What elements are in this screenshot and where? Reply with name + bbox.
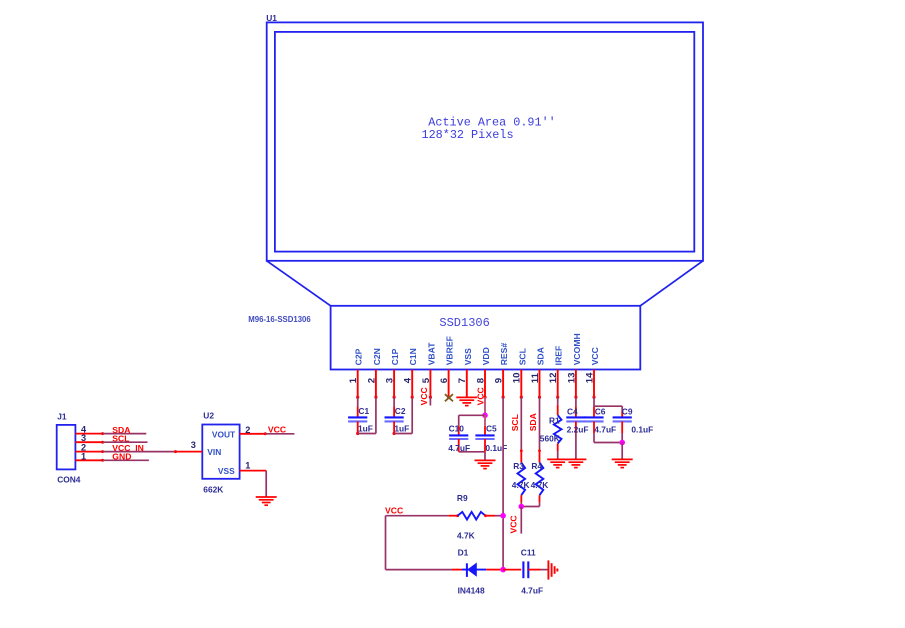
svg-text:8: 8 [475,377,486,383]
svg-text:D1: D1 [458,547,469,557]
svg-text:IREF: IREF [554,346,564,366]
svg-text:C9: C9 [622,406,633,416]
wire R9 to RES# junction [495,515,503,517]
svg-text:0.1uF: 0.1uF [485,443,507,453]
svg-text:1uF: 1uF [394,424,409,434]
svg-text:1uF: 1uF [358,424,373,434]
pin 3 (C1P) lead [385,348,401,398]
wire net VCC [265,433,294,435]
svg-text:M96-16-SSD1306: M96-16-SSD1306 [248,315,311,324]
svg-text:RES#: RES# [499,343,509,366]
wire junction to C10 [459,414,485,416]
pin 5 (VBAT) lead [421,342,437,399]
svg-text:7: 7 [457,378,468,383]
junction D1/C11/RES# [500,567,506,573]
wire C11 to ground [541,569,549,571]
wire VSS to ground [265,471,267,497]
wire display right bezel slant [640,261,703,306]
svg-text:R1: R1 [549,415,560,425]
pin 1 (C2P) lead [348,348,364,398]
svg-text:C11: C11 [521,547,536,557]
svg-text:4.7K: 4.7K [512,480,530,490]
svg-text:VSS: VSS [218,466,235,476]
capacitor C9 [613,406,654,434]
ground (VCC caps) [612,459,633,467]
resistor R9 [449,493,495,541]
capacitor C2 [385,406,410,435]
ground (C11, rotated) [548,560,557,579]
svg-text:1: 1 [348,377,359,383]
resistor R4 [531,449,549,502]
svg-text:SCL: SCL [517,348,527,365]
svg-text:0.1uF: 0.1uF [631,424,653,434]
wire junction to ground [621,443,623,460]
pin J1.4 lead [75,425,104,436]
wire C6 bottom to junction [593,433,595,443]
pin 9 (RES#) lead [494,343,510,399]
svg-text:4.7K: 4.7K [457,531,475,541]
svg-text:4.7K: 4.7K [531,480,549,490]
svg-text:2: 2 [366,378,377,383]
wire SCL vertical [520,397,522,451]
svg-text:VSS: VSS [463,348,473,365]
svg-text:C5: C5 [486,423,497,433]
wire pullup VCC stub [520,507,522,534]
svg-text:C2: C2 [395,406,406,416]
svg-text:SCL: SCL [510,414,520,431]
capacitor C6 [584,406,616,434]
pin J1.3 lead [75,433,104,444]
svg-text:SDA: SDA [528,413,538,431]
svg-text:U2: U2 [203,411,214,421]
capacitor C11 [503,547,543,595]
pin U2.3 (VIN) lead [176,440,203,451]
svg-text:C6: C6 [595,406,606,416]
svg-text:9: 9 [494,378,505,383]
wire net SDA [103,433,147,435]
svg-text:4.7uF: 4.7uF [594,424,616,434]
svg-text:VDD: VDD [481,347,491,365]
wire RES# vertical [502,397,504,516]
svg-text:VCC: VCC [509,515,519,533]
capacitor C4 [566,406,588,434]
svg-text:J1: J1 [57,412,67,422]
pin 13 (VCOMH) lead [566,333,582,399]
svg-text:C1N: C1N [408,348,418,365]
wire pin13 to C4 [575,397,577,407]
wire pin5 stub [429,397,431,405]
svg-text:10: 10 [512,373,523,384]
junction pullup node [519,504,525,510]
svg-text:C4: C4 [567,406,578,416]
wire R3/R4 bottoms joined [520,503,522,507]
ground (VCOMH) [565,459,586,467]
wire R1 to ground [557,451,559,459]
svg-text:VCOMH: VCOMH [572,333,582,365]
wire VCC down to D1 [385,516,387,570]
svg-text:12: 12 [548,373,559,384]
ground (U2 VSS) [256,497,277,505]
wire pin8 to junction [484,397,486,415]
svg-text:1: 1 [81,451,86,461]
svg-text:2: 2 [245,425,250,435]
ground (VDD decoupling) [475,460,496,468]
wire net GND [103,459,149,461]
svg-text:VCC: VCC [590,347,600,365]
junction R9/RES# [500,513,506,519]
connector J1 [57,412,81,485]
wire C2 bottom to pin4 [394,433,412,435]
wire display left bezel slant [267,261,331,306]
pin J1.1 lead [75,451,104,462]
svg-text:3: 3 [385,378,396,383]
svg-text:VCC: VCC [419,387,429,405]
diode D1 [452,547,501,595]
pin J1.2 lead [75,443,104,454]
svg-text:6: 6 [439,378,450,383]
svg-text:2.2uF: 2.2uF [567,424,589,434]
wire pin14 to C6 and link to C9 [593,397,595,407]
svg-text:SSD1306: SSD1306 [439,316,489,330]
svg-text:VBREF: VBREF [445,336,455,365]
svg-text:C2P: C2P [354,348,364,365]
svg-text:C10: C10 [449,423,465,433]
SSD1306 driver block [248,306,640,370]
svg-text:VOUT: VOUT [212,430,236,440]
wire pin1 to C1 [357,397,359,407]
regulator U2 [202,411,239,495]
pin 10 (SCL) lead [512,348,528,399]
svg-text:128*32 Pixels: 128*32 Pixels [422,128,514,142]
wire C10 bottom to C5 bottom [459,451,485,453]
svg-text:4: 4 [403,377,414,383]
junction VCC_IN to U2 [174,450,177,453]
ground (VSS pin7) [456,397,477,405]
pin 12 (IREF) lead [548,346,564,399]
svg-text:11: 11 [530,372,541,383]
wire C9 bottom to junction [621,433,623,443]
svg-text:662K: 662K [203,485,223,495]
wire SDA vertical [539,397,541,451]
svg-text:R3: R3 [513,461,524,471]
pin U2.1 (VSS) lead [240,461,267,471]
OLED display U1 [266,13,703,261]
svg-text:5: 5 [421,377,432,383]
svg-text:14: 14 [584,372,595,383]
pin 7 (VSS) lead [457,348,473,398]
svg-text:4.7uF: 4.7uF [521,586,543,596]
wire pin12 to R1 [557,397,559,405]
svg-text:CON4: CON4 [57,474,81,484]
resistor R3 [512,449,530,502]
capacitor C10 [448,423,470,453]
pin U2.2 (VOUT) lead [240,425,267,435]
svg-text:VCC: VCC [475,387,485,405]
pin 2 (C2N) lead [366,348,382,399]
svg-text:560K: 560K [540,434,560,444]
pin 11 (SDA) lead [530,347,546,399]
junction C6/C9 [619,440,625,446]
svg-text:C1P: C1P [390,348,400,365]
svg-text:VBAT: VBAT [426,342,436,366]
wire C1 bottom to pin2 [358,433,376,435]
capacitor C1 [348,406,373,435]
svg-text:SDA: SDA [536,347,546,365]
wire VCC to R9 [386,515,449,517]
wire C4 to ground [575,433,577,459]
capacitor C5 [475,415,507,453]
svg-text:3: 3 [191,440,196,450]
pin 4 (C1N) lead [403,348,419,399]
no-connect X on VBREF [445,394,453,401]
svg-text:R4: R4 [531,461,542,471]
svg-text:VIN: VIN [207,447,221,457]
svg-text:1: 1 [245,461,250,471]
svg-text:C2N: C2N [372,348,382,365]
svg-text:IN4148: IN4148 [458,586,485,596]
svg-text:13: 13 [566,373,577,384]
resistor R1 560K [540,405,562,451]
svg-text:VCC: VCC [385,505,403,515]
svg-text:R9: R9 [457,493,468,503]
wire pin3 to C2 [393,397,395,407]
pin 8 (VDD) lead [475,347,491,399]
wire net VCC_IN [103,451,176,453]
pin 6 (VBREF) lead [439,336,455,399]
wire C5 to ground [484,452,486,461]
ground (IREF) [547,459,568,467]
svg-text:C1: C1 [358,406,369,416]
junction VDD node [482,413,488,419]
pin 14 (VCC) lead [584,347,600,399]
wire net SCL [103,441,148,443]
